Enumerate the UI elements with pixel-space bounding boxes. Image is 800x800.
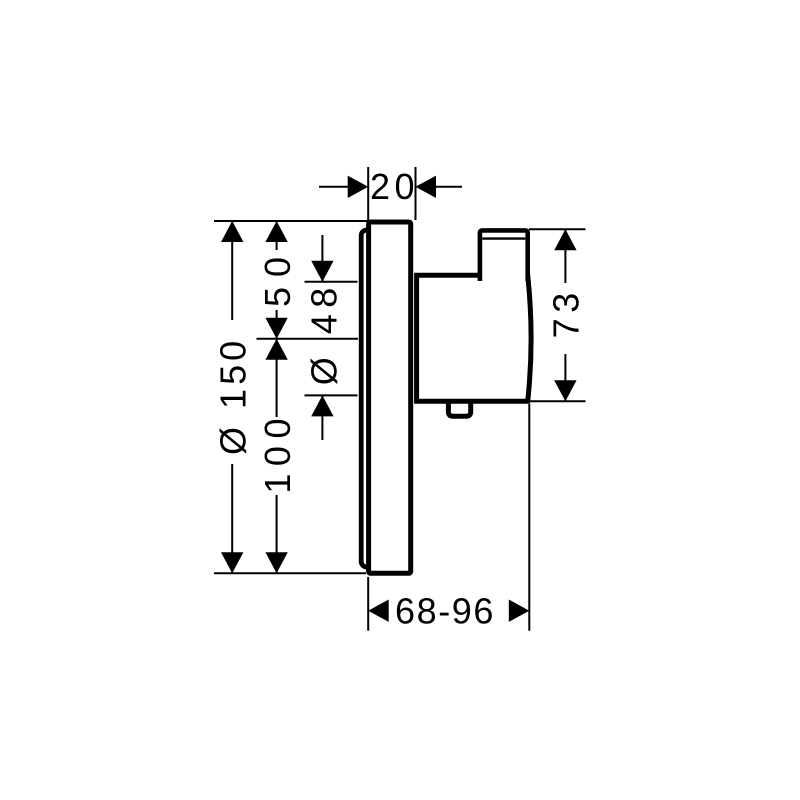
73 top reference line (529, 228, 586, 230)
svg-text:50: 50 (257, 247, 298, 307)
wall sleeve (tube behind escutcheon) (361, 230, 401, 567)
stop tab at bottom of valve body (448, 399, 470, 416)
50 arrow up at top (265, 221, 287, 242)
extension line top-left of 20 dim (367, 167, 369, 220)
d150 arrow down (221, 552, 243, 573)
d48 bottom reference line (305, 394, 358, 396)
d48 dim line lower segment (321, 395, 323, 440)
d48 arrow up at bottom ref (311, 395, 333, 416)
68-96 arrow right (509, 600, 530, 622)
d48 top reference line (305, 281, 358, 283)
20 dim arrow right (416, 176, 437, 198)
d48 arrow down at top ref (311, 261, 333, 282)
d150 dim line lower segment (231, 464, 233, 573)
73 arrow up (554, 229, 576, 250)
top reference line (214, 220, 368, 222)
50/100 dim line seg3 (276, 339, 278, 417)
20 dim arrow left (348, 176, 369, 198)
68-96 left extension line (367, 577, 369, 631)
d150 dim line upper segment (231, 221, 233, 320)
svg-text:Ø 150: Ø 150 (213, 337, 254, 455)
valve body (417, 275, 531, 401)
d48 dim line upper segment (321, 235, 323, 282)
100 arrow up at centre (265, 339, 287, 360)
svg-text:Ø 48: Ø 48 (304, 281, 345, 385)
knob groove line (482, 237, 525, 239)
extension line top-right of 20 dim (415, 167, 417, 220)
73 dim line upper segment (564, 229, 566, 283)
68-96 right extension line (528, 404, 530, 631)
68-96 arrow left (368, 600, 389, 622)
73 arrow down (554, 380, 576, 401)
50/100 dim line seg1 (276, 221, 278, 250)
20 dim leader right (436, 186, 462, 188)
100 arrow down at bottom (265, 552, 287, 573)
d150 arrow up (221, 221, 243, 242)
svg-text:73: 73 (545, 287, 586, 338)
73 dim line lower segment (564, 354, 566, 401)
bottom reference line (214, 572, 366, 574)
svg-text:68-96: 68-96 (395, 591, 495, 632)
middle (centre) reference line (257, 338, 359, 340)
50 arrow down at centre (265, 318, 287, 339)
73 bottom reference line (526, 400, 586, 402)
50/100 dim line seg2 (276, 310, 278, 339)
20 dim leader left (319, 186, 349, 188)
svg-text:20: 20 (370, 166, 419, 207)
50/100 dim line seg4 (276, 495, 278, 573)
escutcheon plate (side view) (369, 222, 411, 573)
handle stub / knob (480, 230, 528, 281)
svg-text:100: 100 (257, 411, 298, 494)
